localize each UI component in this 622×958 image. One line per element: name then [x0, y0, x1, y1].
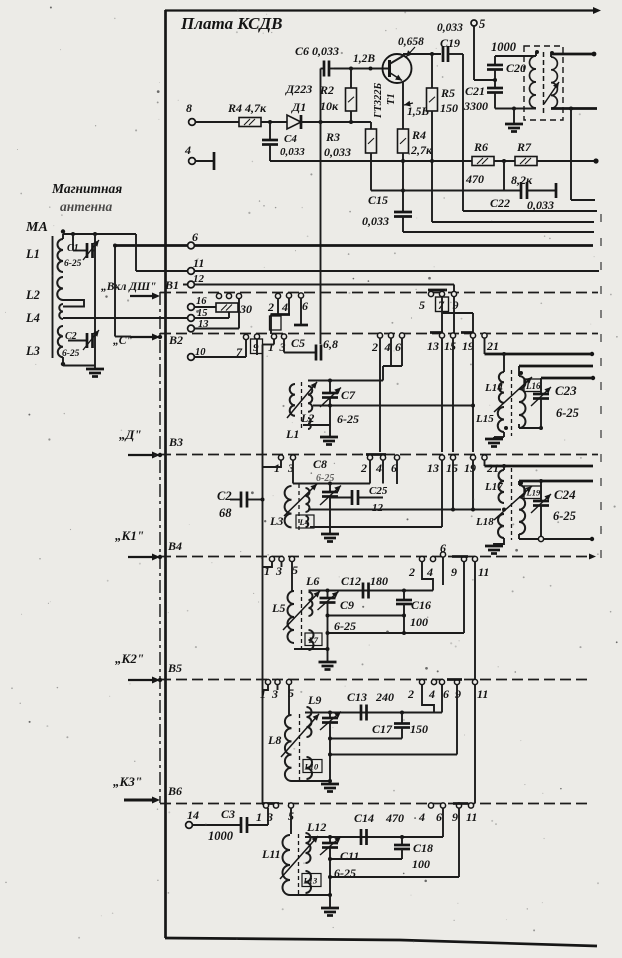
wire C7 bottom to 19 rail — [313, 405, 473, 407]
wire coil top y483 with corner up to contact 2 — [293, 483, 370, 485]
svg-text:В1: В1 — [164, 278, 179, 292]
svg-text:6-25: 6-25 — [337, 412, 359, 426]
wire contact21 to L14 top, output — [484, 338, 486, 354]
wire C21 bottom to transformer, ground tap — [495, 108, 536, 110]
svg-text:100: 100 — [412, 857, 430, 871]
capacitor C25 12 — [330, 497, 352, 499]
coil L4 (D band coupling) — [306, 488, 310, 512]
core — [298, 484, 300, 530]
svg-text:11: 11 — [466, 810, 477, 824]
svg-text:L3: L3 — [25, 344, 40, 358]
label 1,5V emitter — [404, 103, 413, 105]
capacitor C13 240 — [360, 705, 363, 721]
V6 contacts 1 3 5 — [262, 802, 279, 805]
svg-text:„К1": „К1" — [115, 528, 144, 543]
svg-text:4: 4 — [184, 143, 191, 157]
coil L1 (coupling) — [308, 386, 312, 412]
wire contact6 stub — [396, 460, 398, 484]
svg-text:R4 4,7к: R4 4,7к — [227, 101, 267, 115]
wire terminal8 to R4 — [195, 121, 239, 123]
resistor R4 4,7k — [239, 118, 261, 127]
svg-text:6-25: 6-25 — [556, 406, 579, 420]
core — [301, 590, 303, 651]
board frame top border with arrow — [165, 9, 596, 11]
core — [298, 834, 300, 896]
svg-text:2: 2 — [360, 461, 367, 475]
svg-text:240: 240 — [375, 690, 394, 704]
board frame bottom border — [165, 938, 597, 946]
capacitor C18 100 — [401, 837, 403, 845]
svg-text:R7: R7 — [516, 140, 532, 154]
svg-text:2: 2 — [267, 300, 274, 314]
svg-text:2: 2 — [407, 687, 414, 701]
secondary top output — [550, 54, 552, 57]
V5 right contacts 2 4 6 9 11 — [419, 679, 424, 684]
resistor R5 150 — [431, 54, 433, 88]
svg-text:6-25: 6-25 — [62, 349, 80, 359]
wire L8/L10 bottom join — [292, 780, 331, 782]
junction dots antenna band — [328, 404, 332, 408]
wire contact2 rail down to V3 — [379, 338, 381, 452]
V2 contacts 7 9 — [243, 334, 248, 339]
resistor R4' 2,7k emitter — [398, 129, 409, 153]
common vertical to ground — [94, 234, 96, 368]
switch row V3 dashed line — [160, 454, 598, 456]
svg-text:C2: C2 — [65, 331, 77, 342]
svg-text:C23: C23 — [555, 383, 577, 398]
svg-text:1,2В: 1,2В — [353, 53, 375, 65]
antenna bracket line — [52, 236, 54, 358]
variable arrow through L17/L18 — [494, 486, 532, 520]
svg-text:C9: C9 — [340, 598, 354, 612]
rail 19 down through C7 wire to V3 — [472, 338, 474, 452]
left rail x262 down through bands — [262, 345, 264, 804]
wire from secondary bottom down right — [570, 109, 572, 201]
collector wire to C19 — [403, 53, 441, 55]
svg-text:6: 6 — [395, 340, 401, 354]
transformer dashed box — [524, 46, 563, 120]
svg-text:11: 11 — [193, 256, 204, 270]
resistor R7 8,2k — [515, 157, 537, 166]
wire antenna tap down to V2 wiper — [114, 246, 116, 337]
svg-text:6,8: 6,8 — [323, 337, 338, 351]
contact 6 stub — [442, 557, 444, 585]
wire contact9 down to 15 rail — [453, 297, 455, 333]
board frame left border — [164, 10, 167, 938]
node: C6 branch vertical from diode line to base line — [320, 74, 322, 344]
wire C17 bottom left — [330, 738, 402, 740]
svg-text:2,7к: 2,7к — [410, 143, 433, 157]
wire y633 ground rail to contact9 — [328, 632, 465, 634]
capacitor C11 6-25 variable — [329, 837, 331, 843]
variable arrow through L11 — [280, 836, 318, 879]
L15 bottom to ground — [503, 432, 505, 437]
wire R6 to R7 — [494, 160, 515, 162]
svg-text:C20: C20 — [506, 61, 526, 75]
capacitor C24 6-25 — [540, 481, 542, 501]
terminal 10 — [188, 354, 195, 361]
terminal 11 and bus — [136, 270, 599, 272]
wire C18 bottom left — [330, 858, 402, 860]
svg-text:9: 9 — [455, 687, 461, 701]
svg-text:C19: C19 — [440, 36, 460, 50]
resistor R3 0,033 — [370, 122, 372, 129]
svg-text:11: 11 — [478, 565, 489, 579]
svg-text:6-25: 6-25 — [553, 509, 576, 523]
svg-text:Д1: Д1 — [291, 100, 306, 114]
staircase contacts 2/4 — [422, 685, 434, 713]
svg-text:10к: 10к — [320, 99, 339, 113]
svg-text:30: 30 — [239, 302, 252, 316]
svg-text:антенна: антенна — [60, 199, 113, 214]
switch V1 wiper arrow and label Vkl — [130, 295, 155, 297]
coil L19 — [519, 485, 525, 534]
switch row V2 dashed line — [160, 333, 598, 335]
switch row V1 dashed line — [160, 292, 598, 294]
L17/L18 junction to mid wire — [502, 508, 506, 512]
terminal 12 and bus — [183, 284, 454, 286]
wire terminal5 down to C20/C21 junction — [473, 26, 475, 80]
wire y754 to contact 9 rail — [330, 754, 457, 756]
L19 top output line — [518, 481, 520, 485]
variable arrow through L8 — [281, 714, 319, 757]
terminal 14 — [186, 822, 193, 829]
svg-text:1000: 1000 — [208, 829, 234, 843]
svg-text:150: 150 — [440, 101, 458, 115]
wire L2-L4 jog — [63, 300, 84, 307]
svg-text:21: 21 — [486, 339, 499, 353]
ground (D band) — [321, 533, 339, 536]
coil L12 — [306, 833, 311, 863]
scan speckle noise — [396, 28, 397, 29]
capacitor C15 0,033 — [394, 211, 412, 214]
variable arrow through L3/L4 — [284, 484, 317, 516]
L18 bottom to ground — [494, 538, 504, 546]
bus wire y232 from C15 — [403, 231, 594, 233]
svg-text:МА: МА — [25, 220, 48, 235]
svg-text:C5: C5 — [291, 336, 305, 350]
transformer core — [511, 370, 513, 436]
wire contact1 bracket to rail — [263, 460, 282, 467]
rails 13/15/19 down — [441, 460, 443, 527]
terminal 16 — [188, 304, 195, 311]
svg-text:L14: L14 — [484, 382, 503, 394]
svg-text:R5: R5 — [440, 86, 455, 100]
svg-text:2: 2 — [408, 565, 415, 579]
terminal 4 with stub — [189, 158, 196, 165]
svg-text:8: 8 — [186, 101, 192, 115]
svg-text:L17: L17 — [484, 481, 503, 493]
svg-text:9: 9 — [253, 342, 259, 354]
V6 right contacts 4 6 9 11 — [428, 803, 433, 808]
svg-text:R4: R4 — [411, 128, 426, 142]
svg-text:L18: L18 — [475, 516, 494, 528]
wire y190 from R3 to C22 — [371, 190, 521, 192]
V4 contacts 1 3 5 — [269, 556, 274, 561]
wire down to terminal 11 bus — [135, 234, 137, 271]
wire mid y615 — [328, 615, 405, 617]
svg-text:9: 9 — [452, 810, 458, 824]
svg-text:C6 0,033: C6 0,033 — [295, 44, 339, 58]
svg-text:C18: C18 — [413, 841, 433, 855]
transformer primary winding — [535, 52, 537, 56]
wire contact3 down to coil top wire — [292, 460, 294, 484]
L19 bottom output with connector circle — [518, 534, 520, 539]
wire contact3 to C5 — [283, 339, 285, 353]
trimmer capacitor C1 6-25 — [72, 234, 74, 251]
svg-text:„Д": „Д" — [119, 427, 142, 442]
svg-text:L4: L4 — [25, 311, 40, 325]
wire contact1 bracket to left rail — [273, 339, 275, 345]
terminal 13 — [188, 325, 195, 332]
capacitor C8 variable — [329, 484, 331, 493]
V2 contacts 2 4 6 — [377, 333, 382, 338]
antenna ground — [86, 368, 104, 371]
svg-text:„К2": „К2" — [115, 651, 144, 666]
svg-text:C21: C21 — [465, 84, 485, 98]
switch shaft dash-dot line — [159, 292, 161, 803]
svg-text:4: 4 — [428, 687, 435, 701]
svg-text:0,033: 0,033 — [280, 146, 305, 158]
rails 13,15 down to V3 — [441, 338, 443, 452]
wire C20 top to transformer primary — [495, 55, 536, 57]
svg-text:L2: L2 — [300, 411, 314, 425]
wire base line — [334, 68, 388, 70]
svg-text:6: 6 — [436, 810, 442, 824]
V3 contacts 1 3 — [278, 455, 283, 460]
svg-text:5: 5 — [479, 17, 485, 31]
terminal 5 — [471, 20, 477, 26]
wire L3 bottom to ground rail — [62, 357, 64, 365]
transistor T1 GT322B — [383, 54, 412, 83]
coil L2 (tuning) — [290, 384, 295, 416]
coil L10 boxed label — [307, 757, 313, 779]
svg-text:4: 4 — [426, 565, 433, 579]
svg-text:6-25: 6-25 — [334, 619, 356, 633]
wire y877 to contact 9 rail — [330, 876, 459, 878]
svg-text:C16: C16 — [411, 598, 431, 612]
variable arrow through L2 — [287, 382, 317, 418]
V1 contacts 5 7 9 — [428, 289, 447, 292]
K1: top wire y590 — [309, 590, 434, 592]
wire L4 bottom to terminal 15 — [63, 317, 188, 319]
svg-text:В5: В5 — [167, 661, 182, 675]
coil L14 — [499, 372, 504, 403]
capacitor C19 0,033 — [442, 46, 445, 62]
transformer core — [543, 52, 545, 114]
wire bus12 down to contact 9 of V1 — [453, 285, 455, 292]
svg-text:L16: L16 — [525, 381, 541, 391]
coil L9 — [307, 707, 312, 737]
staircase contacts 2/4 to C12 wire — [422, 562, 433, 591]
svg-text:7: 7 — [236, 345, 243, 359]
svg-text:6: 6 — [302, 299, 308, 313]
svg-text:L1: L1 — [285, 427, 299, 441]
svg-text:21: 21 — [486, 461, 499, 475]
svg-text:150: 150 — [410, 722, 428, 736]
wire L1 bottom and ground — [303, 424, 330, 426]
ground (top transformer) — [513, 109, 515, 125]
svg-text:Магнитная: Магнитная — [51, 181, 122, 196]
svg-text:3300: 3300 — [463, 99, 488, 113]
svg-text:L10: L10 — [304, 762, 319, 772]
svg-text:C22: C22 — [490, 196, 510, 210]
svg-text:3: 3 — [266, 810, 273, 824]
svg-text:L6: L6 — [305, 574, 319, 588]
core — [511, 468, 513, 540]
capacitor C14 470 — [360, 829, 363, 845]
svg-text:C7: C7 — [341, 388, 356, 402]
contact 9 rail — [458, 808, 460, 877]
svg-text:В4: В4 — [167, 539, 182, 553]
V2 contacts 1 3 — [271, 334, 276, 339]
coil L3 (D band tuning) — [285, 486, 292, 527]
svg-text:В3: В3 — [168, 435, 183, 449]
svg-text:„К3": „К3" — [113, 774, 142, 789]
capacitor C23 6-25 top line — [541, 377, 594, 380]
resistor R6 470 — [472, 157, 494, 166]
svg-text:C15: C15 — [368, 193, 388, 207]
coil L6 — [309, 592, 313, 616]
svg-text:L3: L3 — [269, 514, 283, 528]
svg-text:4: 4 — [375, 461, 382, 475]
svg-text:13: 13 — [427, 339, 439, 353]
svg-text:6: 6 — [443, 687, 449, 701]
wire R7 to right end — [537, 160, 596, 162]
V5 contacts 1 3 5 — [265, 679, 270, 684]
capacitor C16 100 — [403, 591, 405, 601]
K3: top wire y837 — [305, 836, 443, 838]
wire R4 to diode — [261, 121, 287, 123]
capacitor C22 0,033 — [520, 182, 523, 199]
wire contact4 step to coil wire — [390, 338, 392, 366]
svg-text:12: 12 — [193, 273, 205, 285]
svg-text:13: 13 — [427, 461, 439, 475]
svg-text:R6: R6 — [473, 140, 488, 154]
K2: top wire y712 — [305, 712, 442, 714]
V1 contact 6 with stub — [298, 293, 303, 298]
coil L15 — [498, 407, 504, 432]
svg-text:L2: L2 — [25, 288, 40, 302]
bracket 1-3 to rail — [263, 562, 273, 568]
wire contact21 to L17 top, output — [484, 460, 486, 466]
resistor R8 30 — [216, 303, 238, 312]
svg-text:C13: C13 — [347, 690, 367, 704]
svg-text:C12: C12 — [341, 574, 361, 588]
svg-text:C8: C8 — [313, 457, 327, 471]
svg-text:15: 15 — [444, 339, 456, 353]
capacitor C9 6-25 variable — [327, 591, 329, 599]
board frame right dashed border — [600, 214, 602, 560]
wire contact5 to coil — [291, 562, 293, 592]
bus wire y219 from R5 — [432, 221, 594, 223]
L16 bottom wire — [519, 427, 541, 429]
coil L7 boxed label — [309, 630, 314, 650]
capacitor C5 6,8 — [315, 345, 318, 361]
svg-text:5: 5 — [419, 298, 425, 312]
coil L17 — [499, 470, 504, 503]
capacitor C21 3300 — [487, 87, 503, 90]
V4 right contacts 2 4 6 9 11 — [419, 556, 424, 561]
svg-text:C3: C3 — [221, 807, 235, 821]
wire L5/L7 bottom join — [294, 648, 328, 650]
switch row V6 dashed line — [160, 803, 592, 805]
resistor R2 10k — [350, 69, 352, 89]
svg-text:L15: L15 — [475, 413, 494, 425]
trimmer capacitor C2 6-25 — [68, 340, 87, 342]
svg-text:0,658: 0,658 — [398, 36, 424, 48]
svg-text:16: 16 — [196, 296, 207, 307]
svg-text:0,033: 0,033 — [437, 22, 463, 34]
capacitor C7 6-25 variable — [329, 381, 331, 394]
capacitor C2 68 — [230, 499, 241, 501]
svg-text:L11: L11 — [261, 847, 281, 861]
svg-text:68: 68 — [219, 506, 232, 520]
svg-text:C14: C14 — [354, 811, 374, 825]
wire main rail y161 — [270, 160, 472, 162]
wire diode to R3 — [301, 121, 371, 123]
svg-text:0,033: 0,033 — [362, 214, 389, 228]
svg-text:R2: R2 — [319, 83, 334, 97]
diode D1 D223 — [287, 115, 301, 129]
contact 11 rail down to V6 — [474, 685, 476, 804]
wire contact4 stub — [382, 460, 384, 484]
svg-text:L7: L7 — [308, 635, 319, 645]
svg-text:1: 1 — [274, 461, 280, 475]
transformer secondary winding (variable) — [551, 57, 557, 108]
svg-text:C24: C24 — [554, 487, 576, 502]
capacitor C17 150 — [401, 713, 403, 724]
svg-text:C2: C2 — [217, 489, 232, 503]
wire coil bottoms join — [290, 894, 330, 896]
contact 9 rail — [456, 685, 458, 755]
contacts over R8 — [216, 293, 221, 298]
capacitor C6 0,033 — [320, 69, 322, 75]
wire contact7 down to 13 rail — [441, 297, 443, 333]
svg-text:6-25: 6-25 — [316, 473, 334, 484]
ground (K3) — [329, 895, 331, 908]
svg-text:180: 180 — [370, 574, 388, 588]
svg-text:В2: В2 — [168, 333, 183, 347]
coil L16 — [519, 376, 526, 428]
svg-text:L4: L4 — [299, 517, 309, 527]
svg-text:Т1: Т1 — [386, 93, 397, 105]
svg-text:11: 11 — [477, 687, 488, 701]
svg-text:1: 1 — [256, 810, 262, 824]
switch row V4 dashed line — [160, 556, 592, 558]
svg-text:„Вкл ДШ": „Вкл ДШ" — [101, 281, 156, 293]
svg-text:12: 12 — [372, 502, 384, 514]
coil L8 — [285, 715, 292, 781]
coil L18 — [498, 514, 504, 538]
svg-text:9: 9 — [451, 565, 457, 579]
svg-text:C25: C25 — [369, 485, 388, 497]
svg-text:0,033: 0,033 — [324, 145, 351, 159]
svg-text:6: 6 — [192, 230, 198, 244]
switch V2 wiper arrow and label S — [130, 336, 155, 338]
svg-text:6-25: 6-25 — [64, 259, 82, 269]
capacitor C4 0,033 — [269, 122, 271, 140]
svg-text:2: 2 — [371, 340, 378, 354]
svg-text:C1: C1 — [67, 243, 79, 254]
svg-text:470: 470 — [385, 811, 404, 825]
V3 contacts 13 15 19 21 — [439, 455, 444, 460]
svg-text:C17: C17 — [372, 722, 393, 736]
terminal 8 — [189, 119, 196, 126]
terminal 6 and bus — [115, 244, 593, 247]
ground (K1) — [319, 661, 337, 664]
V2 contacts 13 15 19 21 — [430, 331, 443, 334]
